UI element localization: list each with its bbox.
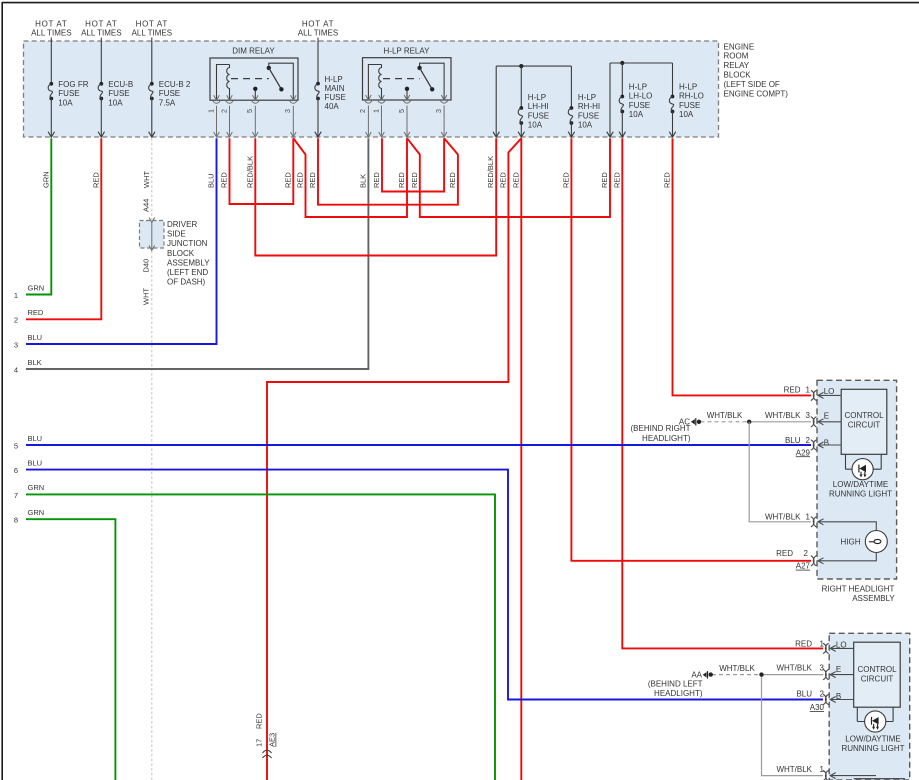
svg-text:BLU: BLU: [207, 173, 216, 188]
svg-text:RED: RED: [776, 549, 793, 558]
svg-text:4: 4: [14, 365, 18, 374]
svg-text:1: 1: [806, 512, 811, 521]
svg-text:ALL TIMES: ALL TIMES: [81, 28, 121, 37]
svg-text:FUSE: FUSE: [325, 93, 346, 102]
svg-text:RH-LO: RH-LO: [679, 92, 704, 101]
svg-text:3: 3: [820, 664, 825, 673]
svg-text:2: 2: [820, 690, 825, 699]
svg-text:10A: 10A: [108, 98, 123, 107]
svg-text:FUSE: FUSE: [58, 89, 79, 98]
svg-text:BLU: BLU: [28, 333, 43, 342]
svg-text:2: 2: [219, 109, 228, 113]
svg-text:A29: A29: [796, 448, 811, 457]
svg-text:1: 1: [806, 386, 811, 395]
svg-text:(BEHIND RIGHT: (BEHIND RIGHT: [631, 424, 691, 433]
svg-text:FUSE: FUSE: [108, 89, 129, 98]
svg-text:1: 1: [371, 109, 380, 113]
svg-text:OF DASH): OF DASH): [167, 278, 206, 287]
svg-text:RED: RED: [283, 172, 292, 188]
svg-text:CIRCUIT: CIRCUIT: [861, 675, 894, 684]
svg-text:HOT AT: HOT AT: [35, 19, 67, 28]
svg-text:WHT/BLK: WHT/BLK: [776, 765, 812, 774]
svg-text:5: 5: [397, 109, 406, 113]
svg-text:HOT AT: HOT AT: [85, 19, 117, 28]
svg-text:(LEFT SIDE OF: (LEFT SIDE OF: [724, 80, 780, 89]
svg-text:WHT/BLK: WHT/BLK: [707, 411, 743, 420]
svg-text:RED/BLK: RED/BLK: [245, 156, 254, 188]
svg-text:3: 3: [283, 109, 292, 113]
svg-text:7.5A: 7.5A: [159, 98, 176, 107]
svg-text:RED: RED: [372, 172, 381, 188]
svg-text:RED: RED: [28, 308, 44, 317]
svg-text:RED: RED: [308, 172, 317, 188]
svg-text:RED: RED: [255, 713, 264, 729]
svg-text:3: 3: [14, 340, 18, 349]
svg-text:GRN: GRN: [28, 508, 45, 517]
svg-text:RELAY: RELAY: [724, 61, 750, 70]
svg-text:A30: A30: [810, 703, 825, 712]
svg-text:1: 1: [820, 765, 825, 774]
svg-text:B: B: [836, 692, 841, 701]
svg-text:2: 2: [358, 109, 367, 113]
svg-text:LO: LO: [824, 387, 835, 396]
svg-text:A44: A44: [142, 199, 151, 212]
svg-text:FUSE: FUSE: [629, 101, 650, 110]
svg-text:H-LP: H-LP: [528, 93, 546, 102]
svg-text:8: 8: [14, 516, 18, 525]
svg-text:WHT/BLK: WHT/BLK: [765, 411, 801, 420]
svg-text:A27: A27: [796, 562, 811, 571]
svg-text:H-LP: H-LP: [629, 83, 647, 92]
svg-text:WHT: WHT: [142, 171, 151, 188]
svg-text:CONTROL: CONTROL: [844, 411, 884, 420]
svg-text:WHT/BLK: WHT/BLK: [765, 512, 801, 521]
svg-text:RUNNING LIGHT: RUNNING LIGHT: [829, 490, 892, 499]
svg-text:H-LP: H-LP: [325, 75, 343, 84]
svg-text:FOG FR: FOG FR: [58, 80, 88, 89]
svg-text:5: 5: [14, 441, 18, 450]
svg-text:ALL TIMES: ALL TIMES: [132, 28, 172, 37]
svg-text:BLU: BLU: [796, 690, 812, 699]
svg-text:RUNNING LIGHT: RUNNING LIGHT: [841, 744, 904, 753]
svg-text:SIDE: SIDE: [167, 230, 186, 239]
svg-text:3: 3: [806, 411, 811, 420]
svg-text:RED: RED: [91, 172, 100, 188]
svg-text:17: 17: [255, 739, 264, 747]
svg-text:GRN: GRN: [28, 283, 45, 292]
svg-text:HOT AT: HOT AT: [136, 19, 168, 28]
svg-text:LOW/DAYTIME: LOW/DAYTIME: [833, 480, 888, 489]
svg-text:RED: RED: [511, 172, 520, 188]
svg-text:ASSEMBLY: ASSEMBLY: [852, 594, 895, 603]
svg-text:FUSE: FUSE: [159, 89, 180, 98]
svg-text:RED: RED: [784, 386, 801, 395]
svg-text:3: 3: [434, 109, 443, 113]
svg-text:10A: 10A: [629, 110, 644, 119]
svg-text:FUSE: FUSE: [679, 101, 700, 110]
svg-text:LO: LO: [836, 641, 847, 650]
svg-text:LH-LO: LH-LO: [629, 92, 653, 101]
svg-text:DIM RELAY: DIM RELAY: [232, 46, 275, 55]
svg-text:10A: 10A: [58, 98, 73, 107]
svg-text:E: E: [836, 665, 841, 674]
svg-text:WHT/BLK: WHT/BLK: [776, 664, 812, 673]
svg-text:5: 5: [245, 109, 254, 113]
svg-text:RED: RED: [561, 172, 570, 188]
svg-text:ASSEMBLY: ASSEMBLY: [167, 258, 210, 267]
svg-text:BLK: BLK: [358, 174, 367, 188]
svg-text:RED: RED: [410, 172, 419, 188]
svg-text:FUSE: FUSE: [578, 111, 599, 120]
svg-text:ENGINE: ENGINE: [724, 42, 755, 51]
svg-text:B: B: [824, 439, 829, 448]
svg-text:(LEFT END: (LEFT END: [167, 268, 208, 277]
svg-text:RH-HI: RH-HI: [578, 102, 600, 111]
svg-text:1: 1: [206, 109, 215, 113]
svg-text:BLU: BLU: [785, 436, 801, 445]
svg-text:2: 2: [14, 316, 18, 325]
svg-text:ECU-B 2: ECU-B 2: [159, 80, 191, 89]
svg-text:HEADLIGHT): HEADLIGHT): [642, 434, 691, 443]
svg-text:HEADLIGHT): HEADLIGHT): [654, 689, 703, 698]
svg-text:10A: 10A: [578, 121, 593, 130]
svg-text:H-LP RELAY: H-LP RELAY: [384, 46, 431, 55]
svg-text:ALL TIMES: ALL TIMES: [298, 28, 338, 37]
svg-text:RED/BLK: RED/BLK: [486, 156, 495, 188]
svg-text:RED: RED: [600, 172, 609, 188]
svg-text:40A: 40A: [325, 102, 340, 111]
svg-text:2: 2: [804, 549, 809, 558]
svg-text:FUSE: FUSE: [528, 111, 549, 120]
svg-text:7: 7: [14, 491, 18, 500]
svg-text:10A: 10A: [679, 110, 694, 119]
svg-text:RED: RED: [397, 172, 406, 188]
svg-text:2: 2: [806, 436, 811, 445]
svg-text:RED: RED: [498, 172, 507, 188]
svg-text:ROOM: ROOM: [724, 52, 749, 61]
svg-text:BLK: BLK: [28, 358, 42, 367]
svg-text:HIGH: HIGH: [841, 538, 861, 547]
svg-text:MAIN: MAIN: [325, 84, 345, 93]
svg-text:BLU: BLU: [28, 434, 43, 443]
svg-text:1: 1: [14, 291, 18, 300]
svg-text:BLU: BLU: [28, 458, 43, 467]
svg-text:(BEHIND LEFT: (BEHIND LEFT: [648, 680, 703, 689]
svg-text:LOW/DAYTIME: LOW/DAYTIME: [845, 735, 900, 744]
svg-text:1: 1: [820, 639, 825, 648]
svg-text:ALL TIMES: ALL TIMES: [31, 28, 71, 37]
svg-text:CIRCUIT: CIRCUIT: [848, 421, 881, 430]
svg-text:JUNCTION: JUNCTION: [167, 239, 208, 248]
svg-text:AE3: AE3: [268, 733, 277, 747]
svg-text:CONTROL: CONTROL: [857, 665, 897, 674]
svg-text:RED: RED: [663, 172, 672, 188]
svg-text:AA: AA: [691, 670, 702, 679]
svg-text:HOT AT: HOT AT: [302, 19, 334, 28]
svg-text:DRIVER: DRIVER: [167, 220, 197, 229]
svg-text:ENGINE COMPT): ENGINE COMPT): [724, 89, 789, 98]
svg-text:RIGHT HEADLIGHT: RIGHT HEADLIGHT: [822, 585, 895, 594]
svg-text:6: 6: [14, 466, 18, 475]
svg-text:10A: 10A: [528, 121, 543, 130]
svg-text:RED: RED: [448, 172, 457, 188]
svg-text:BLOCK: BLOCK: [724, 71, 752, 80]
svg-text:RED: RED: [296, 172, 305, 188]
svg-text:D40: D40: [142, 259, 151, 273]
svg-text:WHT/BLK: WHT/BLK: [719, 664, 755, 673]
svg-text:WHT: WHT: [142, 288, 151, 305]
svg-text:ECU-B: ECU-B: [108, 80, 133, 89]
svg-text:E: E: [824, 411, 829, 420]
svg-text:LH-HI: LH-HI: [528, 102, 549, 111]
svg-text:BLOCK: BLOCK: [167, 249, 195, 258]
svg-text:H-LP: H-LP: [679, 83, 697, 92]
svg-text:RED: RED: [612, 172, 621, 188]
svg-text:GRN: GRN: [41, 171, 50, 188]
svg-text:H-LP: H-LP: [578, 93, 596, 102]
svg-text:RED: RED: [795, 639, 812, 648]
svg-text:RED: RED: [220, 172, 229, 188]
svg-text:GRN: GRN: [28, 483, 45, 492]
